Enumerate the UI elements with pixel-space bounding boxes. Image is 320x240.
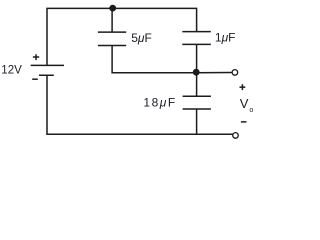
svg-text:V: V [240,96,249,111]
svg-text:5μF: 5μF [131,31,152,45]
svg-text:12V: 12V [1,64,22,76]
svg-text:1μF: 1μF [215,30,236,44]
svg-text:18μF: 18μF [143,95,176,109]
svg-text:o: o [249,107,253,114]
